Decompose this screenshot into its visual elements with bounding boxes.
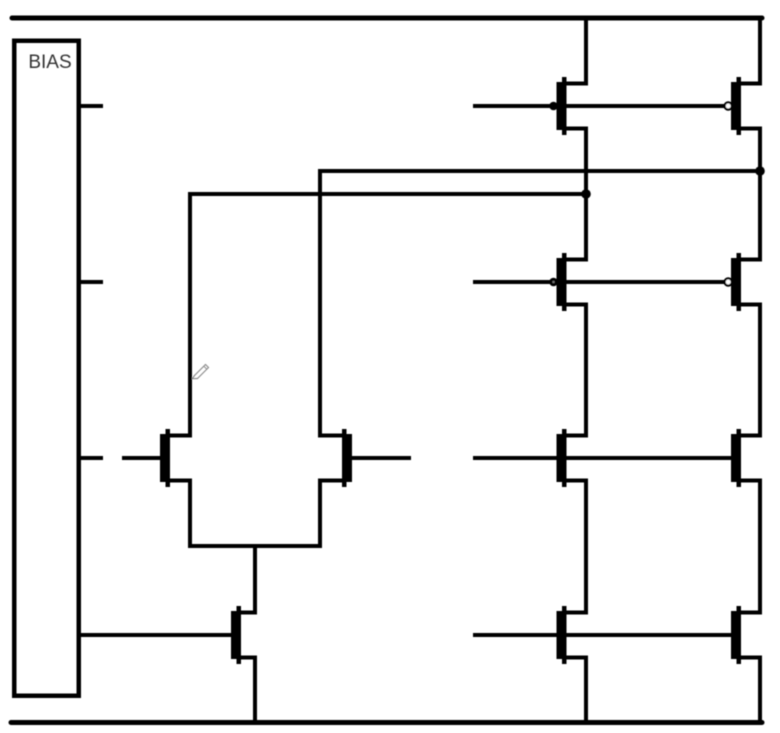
svg-text:BIAS: BIAS	[28, 52, 71, 73]
